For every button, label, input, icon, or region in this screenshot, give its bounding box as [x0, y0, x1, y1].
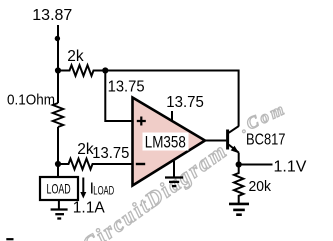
- wire left rail lower: [57, 127, 59, 177]
- wire top to collector: [105, 71, 238, 127]
- transistor Q1 base bar: [226, 130, 229, 150]
- junction J3: [55, 161, 61, 167]
- svg-text:LM358: LM358: [145, 133, 186, 151]
- label U1 LM358: [143, 133, 189, 152]
- node dot on left rail: [55, 36, 60, 41]
- transistor Q1 emitter lead with arrow: [229, 145, 240, 154]
- op-amp V+ pin stub: [171, 111, 173, 122]
- svg-text:0.1Ohm: 0.1Ohm: [7, 92, 55, 109]
- wire load to ground: [58, 200, 60, 210]
- resistor R2 0.1Ohm (vertical): [53, 103, 63, 127]
- op-amp minus pin mark: [136, 163, 145, 165]
- svg-text:13.87: 13.87: [32, 7, 72, 24]
- op-amp plus pin mark: [137, 117, 146, 126]
- svg-text:1.1A: 1.1A: [73, 199, 106, 216]
- wire op-amp output to base: [205, 140, 226, 142]
- junction J4: [236, 161, 242, 167]
- svg-text:2k: 2k: [67, 48, 84, 65]
- wire noninverting input: [105, 71, 132, 122]
- transistor Q1 collector lead: [229, 126, 239, 133]
- ground (op-amp V-): [165, 178, 183, 187]
- svg-text:1.1V: 1.1V: [274, 159, 307, 176]
- junction J1: [55, 67, 61, 73]
- load box: [40, 177, 78, 200]
- watermark: [77, 99, 289, 241]
- wire emitter node stub: [239, 164, 273, 166]
- partial mark at bottom edge: [6, 238, 13, 240]
- current arrow ILOAD: [80, 178, 86, 199]
- svg-text:13.75: 13.75: [166, 94, 204, 111]
- svg-text:LOAD: LOAD: [93, 183, 114, 197]
- resistor R4 20k (vertical): [234, 165, 243, 204]
- wire emitter to junction: [238, 153, 240, 165]
- ground (load): [51, 210, 68, 219]
- resistor R3 2k (bottom, horizontal): [58, 159, 133, 170]
- svg-text:13.75: 13.75: [92, 145, 129, 162]
- resistor R1 2k (top, horizontal): [58, 65, 105, 76]
- op-amp U1 LM358 body: [133, 98, 206, 186]
- svg-text:20k: 20k: [249, 178, 272, 195]
- ground (R4): [229, 204, 249, 215]
- svg-text:13.75: 13.75: [108, 79, 145, 96]
- junction J2: [102, 67, 108, 73]
- op-amp V- pin stub: [173, 161, 175, 178]
- wire left rail upper: [57, 25, 59, 103]
- svg-text:BC817: BC817: [246, 131, 286, 148]
- label ILOAD: [90, 180, 115, 197]
- svg-text:LOAD: LOAD: [47, 180, 71, 196]
